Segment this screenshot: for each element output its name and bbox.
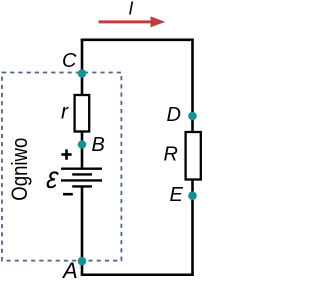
resistor r (75, 95, 90, 132)
svg-text:R: R (164, 143, 178, 165)
svg-text:I: I (128, 0, 133, 19)
svg-text:C: C (62, 50, 77, 72)
battery - terminal sign (63, 193, 73, 196)
node D (188, 112, 197, 121)
svg-text:Ogniwo: Ogniwo (7, 138, 32, 201)
wire left vertical middle (resistor r through B to battery) (81, 131, 84, 169)
svg-text:r: r (61, 101, 69, 124)
battery EMF source: plate 1 (long, +) (61, 167, 102, 169)
wire right vertical lower (resistor R through E to bottom corner) (191, 179, 194, 276)
battery plate 2 (short) (72, 173, 92, 175)
resistor R (186, 132, 201, 180)
wire top (C to D corner) (81, 38, 194, 41)
node B (78, 140, 87, 149)
current arrow I (99, 20, 153, 23)
wire right vertical upper (top corner through D to resistor R) (191, 39, 194, 134)
svg-text:D: D (167, 104, 181, 126)
cell boundary (Ogniwo) dashed box (2, 73, 121, 261)
node A (78, 257, 87, 266)
battery plate 3 (long) (61, 179, 102, 181)
wire bottom (A corner to E corner) (81, 273, 194, 276)
wire left vertical lower (battery through A to bottom corner) (81, 186, 84, 274)
wire left vertical upper (top corner through C to resistor r) (81, 39, 84, 97)
battery + terminal sign (61, 149, 71, 159)
node E (188, 191, 197, 200)
svg-text:B: B (92, 134, 105, 156)
svg-text:A: A (61, 258, 78, 281)
svg-text:E: E (170, 184, 184, 206)
node C (78, 69, 87, 78)
battery plate 4 (short, -) (72, 185, 92, 187)
